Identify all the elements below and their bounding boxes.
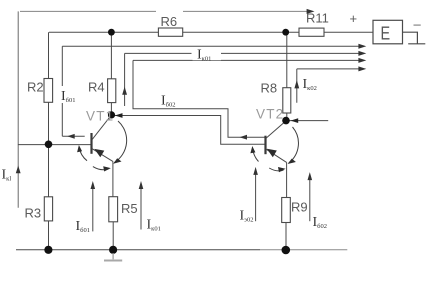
resistor R3 xyxy=(44,197,52,221)
transistor VT2 collector line xyxy=(266,121,286,138)
wire bottom rail xyxy=(16,249,260,251)
arrowhead I_k02 up xyxy=(294,80,299,88)
battery E negative lead xyxy=(403,32,426,44)
VT2 bottom arc xyxy=(269,168,283,171)
transistor VT2 emitter line xyxy=(266,149,286,162)
annotation arrow line right of R5 xyxy=(140,189,142,230)
annotation path I_k01 xyxy=(125,53,359,106)
wire R4 branch vertical xyxy=(110,32,112,115)
arrowhead left of R9 up xyxy=(253,167,258,175)
VT1 bottom arc xyxy=(93,167,109,170)
wire R8 branch vertical xyxy=(286,32,288,120)
svg-text:E: E xyxy=(381,23,391,44)
wire VT1 emitter to R5 xyxy=(112,161,114,249)
wire top annotation line I_kl horizontal xyxy=(20,10,308,12)
arrowhead left of R5 up xyxy=(91,181,96,189)
VT1 big arc xyxy=(114,121,126,163)
arrowhead right of R5 up xyxy=(139,181,144,189)
svg-text:VT2: VT2 xyxy=(256,107,284,122)
wire VT2 emitter to R9 xyxy=(285,162,288,249)
label I_k01 top xyxy=(193,48,222,63)
wire bottom rail right lighter xyxy=(260,249,347,251)
svg-text:R6: R6 xyxy=(161,14,178,29)
node dot rail R8 xyxy=(282,29,289,36)
label I_b01 top xyxy=(60,87,77,105)
transistor VT1 emitter line xyxy=(92,149,113,162)
svg-text:R3: R3 xyxy=(25,206,42,221)
arrowhead I_k01 up xyxy=(122,87,127,95)
svg-text:R5: R5 xyxy=(121,201,138,216)
arrowhead I_kl up xyxy=(16,166,21,174)
VT1 small arc arrowhead xyxy=(77,145,82,152)
resistor R11 xyxy=(299,28,324,36)
resistor R8 xyxy=(283,88,291,113)
resistor R5 xyxy=(109,197,118,222)
svg-text:R9: R9 xyxy=(291,200,308,215)
svg-text:R4: R4 xyxy=(88,80,105,95)
VT2 small arc up xyxy=(253,149,259,162)
arrowhead I_b01 left xyxy=(67,134,75,139)
annotation arrow line left of R5 xyxy=(92,189,94,232)
wire supply rail y=32 xyxy=(49,31,373,33)
arrowhead line2 right xyxy=(358,51,366,56)
annotation arrow line left of R9 xyxy=(255,175,257,222)
wire R2/R3 branch vertical xyxy=(48,32,50,250)
annotation path I_k02 xyxy=(297,69,359,103)
annotation path I_b02 xyxy=(133,60,359,137)
transistor VT1 collector line xyxy=(92,116,111,140)
ground xyxy=(104,253,122,261)
wire left annotation vertical I_kl xyxy=(17,11,19,207)
svg-text:R2: R2 xyxy=(27,80,44,95)
battery E box xyxy=(373,20,403,44)
wire VT1 base xyxy=(18,144,91,146)
arrowhead line4 right xyxy=(358,66,366,71)
node dot rail R5 ground xyxy=(109,246,117,254)
svg-text:–: – xyxy=(414,17,422,32)
svg-text:R8: R8 xyxy=(261,81,278,96)
VT1 bottom arc arrowhead xyxy=(103,166,111,171)
transistor VT2 base bar xyxy=(264,136,266,155)
transistor VT1 emitter arrowhead xyxy=(94,149,104,157)
resistor R4 xyxy=(108,79,116,103)
node dot rail R9 xyxy=(282,246,291,255)
node dot VT1 collector xyxy=(108,111,115,118)
arrowhead coupling wire at VT1 node xyxy=(115,113,123,118)
VT1 small arc up xyxy=(80,148,88,161)
transistor VT1 base bar xyxy=(90,133,92,154)
annotation arrow line right of R9 xyxy=(309,180,311,222)
annotation path I_b01 xyxy=(62,46,358,136)
VT1 big arc arrowhead xyxy=(113,158,121,164)
node dot VT2 collector xyxy=(282,117,290,125)
resistor R2 xyxy=(44,79,53,103)
VT2 big arc arrowhead xyxy=(288,159,296,164)
node dot VT1 base R2 R3 xyxy=(45,141,53,149)
transistor VT2 emitter arrowhead xyxy=(267,149,277,158)
node dot rail R4 xyxy=(108,29,115,36)
VT2 big arc xyxy=(289,127,299,163)
wire VT2 collector stub xyxy=(286,120,328,122)
svg-text:R11: R11 xyxy=(306,11,329,26)
VT2 small arc arrowhead xyxy=(250,146,255,153)
arrowhead right of R9 up xyxy=(308,172,313,180)
arrowhead stub at VT2 node xyxy=(291,118,299,123)
node dot rail R3 xyxy=(44,246,52,254)
VT2 bottom arc arrowhead xyxy=(278,167,286,172)
arrowhead I_b02 left xyxy=(240,135,248,140)
arrowhead line1 right xyxy=(358,44,366,49)
resistor R9 xyxy=(282,198,291,223)
svg-text:VT1: VT1 xyxy=(86,109,114,124)
arrowhead top annotation right xyxy=(307,9,315,14)
svg-text:+: + xyxy=(350,11,358,26)
wire coupling VT1 collector to VT2 base xyxy=(112,116,265,145)
arrowhead line3 right xyxy=(358,58,366,63)
resistor R6 xyxy=(158,28,182,36)
